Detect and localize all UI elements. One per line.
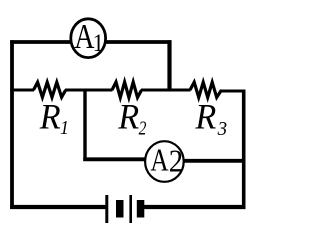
wire bottom left segment [10,205,105,209]
resistor R3 [190,82,222,97]
svg-text:2: 2 [139,117,147,139]
label R3 [194,97,227,141]
svg-text:2: 2 [169,143,183,179]
svg-text:R: R [194,97,216,137]
wire resistor row after R3 [221,90,246,93]
wire bottom right segment [144,205,246,209]
svg-text:A: A [74,17,94,56]
wire resistor row before R1 [10,89,34,92]
wire right vertical [242,90,246,210]
svg-text:R: R [39,97,61,137]
label R1 [39,97,69,139]
wire left vertical [10,40,14,209]
wire resistor row between R1 and R2 [65,89,113,92]
wire top right segment [106,40,172,44]
wire vertical drop to resistor row [167,40,171,91]
svg-text:1: 1 [93,30,104,57]
svg-text:A: A [150,143,168,179]
svg-text:1: 1 [60,117,69,139]
svg-text:R: R [117,97,139,137]
wire mid vertical between R1 and R2 down to A2 row [83,90,86,161]
wire A2 row right segment [183,159,245,163]
label R2 [117,97,146,139]
ammeter A1 [71,17,106,58]
resistor R2 [112,82,142,98]
wire top left segment [10,40,71,44]
wire resistor row between R2 and R3 [141,89,191,92]
wire A2 row left segment [83,157,146,161]
battery BT1 [107,195,145,223]
svg-text:3: 3 [217,119,228,141]
ammeter A2 [145,141,184,182]
resistor R1 [34,82,66,97]
